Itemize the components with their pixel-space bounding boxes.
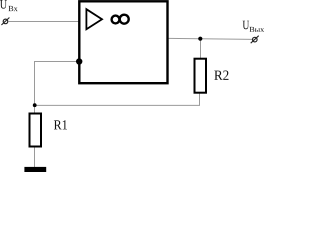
node: junction above R1 — [33, 103, 37, 107]
op-amp infinity gain symbol — [112, 15, 129, 24]
label R2 — [214, 71, 228, 80]
wire feedback: op-amp inverting input left and down — [35, 62, 79, 106]
label U_Bx (input voltage) — [0, 0, 7, 9]
wire input terminal to op-amp — [8, 21, 78, 23]
node: output junction — [198, 37, 202, 41]
input terminal — [1, 18, 9, 26]
wire node to R1 top — [34, 105, 36, 113]
op-amp triangle symbol — [86, 9, 102, 29]
ground — [24, 167, 46, 172]
wire output node down to R2 top — [200, 39, 202, 58]
wire output: op-amp to output terminal — [169, 38, 253, 39]
resistor R1 — [30, 114, 42, 147]
node: feedback junction on op-amp inverting input — [76, 58, 82, 64]
label R1 — [54, 120, 67, 129]
op-amp U1 body — [79, 1, 167, 83]
wire R1 bottom to ground — [34, 147, 36, 168]
resistor R2 — [195, 59, 207, 93]
wire bottom: R2 bottom to node above R1 — [35, 94, 200, 106]
label U_Byx (output voltage) — [243, 21, 250, 30]
output terminal — [251, 36, 259, 44]
